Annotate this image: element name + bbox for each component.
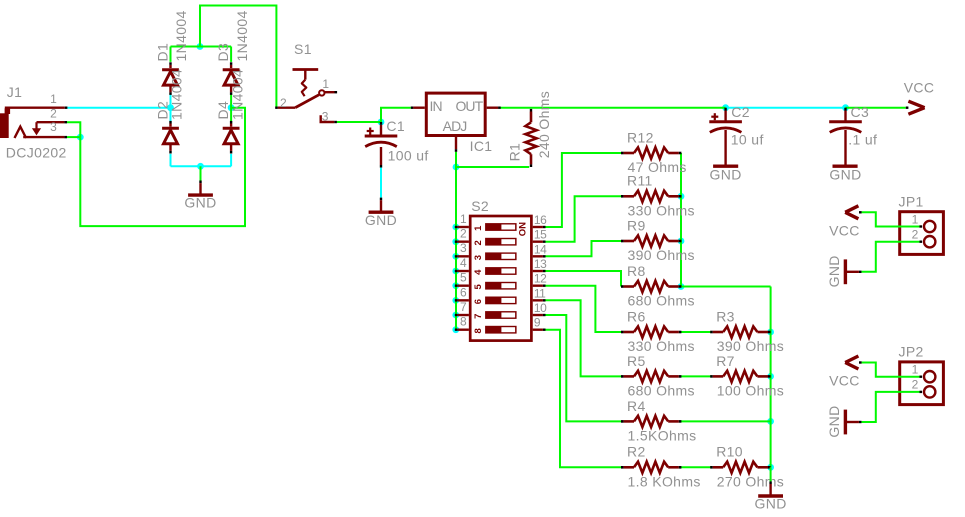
resistor R10 (270 Ohms) (710, 444, 784, 490)
resistor R1 (vertical) (525, 109, 536, 167)
resistor R9 (390 Ohms) (621, 217, 695, 263)
wire: C3 junction to VCC arrow (846, 107, 906, 109)
wire: bridge left branch D1-D2 (cyan) (170, 95, 172, 123)
svg-text:14: 14 (534, 242, 547, 256)
wire: vertical net joining R12,R11,R9,R8 right ends (680, 153, 682, 287)
svg-text:8: 8 (460, 315, 467, 329)
capacitor C3 lower pin (844, 130, 846, 165)
wire: bridge right branch below D4 (cyan) (230, 154, 232, 166)
resistor R11 (330 Ohms) (621, 173, 695, 219)
svg-text:ON: ON (518, 222, 529, 236)
svg-text:R10: R10 (716, 444, 743, 460)
S2 pin 13 stub (right) (533, 270, 546, 272)
junction dot: C3 at VCC rail (842, 104, 849, 111)
svg-text:S2: S2 (471, 198, 489, 214)
junction dot: J1 pin2/pin3 node (77, 134, 84, 141)
wire: C1 junction up and to IC1 IN (381, 108, 411, 122)
resistor R12 (47 Ohms) (621, 129, 687, 175)
svg-text:GND: GND (365, 212, 397, 228)
junction dot: R4 wire at GND bus (767, 418, 774, 425)
svg-text:.1 uf: .1 uf (848, 132, 877, 148)
svg-text:1.5KOhms: 1.5KOhms (628, 427, 697, 443)
diode D4 (1N4004) (223, 121, 240, 154)
svg-text:1N4004: 1N4004 (169, 69, 185, 120)
svg-text:6: 6 (460, 285, 467, 299)
svg-text:13: 13 (534, 257, 547, 271)
svg-text:IN: IN (430, 98, 442, 114)
S2 pin 10 stub (right) (533, 314, 546, 316)
JP1 pin 1 circle (924, 221, 935, 232)
wire: S2 pin15 to R11 (545, 196, 621, 241)
svg-text:3: 3 (322, 110, 329, 124)
S2 pin 6 stub (left) (455, 299, 469, 301)
junction dot: C1 / S1.3 / IC1.IN node (378, 119, 385, 126)
wire: J1 node big loop to bridge right mid (80, 108, 245, 226)
resistor R7 (100 Ohms) (710, 353, 784, 399)
junction dot: R10 right at GND bus (767, 464, 774, 471)
svg-text:ADJ: ADJ (443, 118, 467, 134)
svg-text:4: 4 (460, 256, 467, 270)
svg-text:100 Ohms: 100 Ohms (717, 382, 784, 398)
capacitor C3 (826, 80, 943, 438)
junction dot: bridge top node (197, 43, 204, 50)
junction dot: R9 right at vertical net (678, 238, 685, 245)
svg-text:3: 3 (50, 120, 57, 134)
svg-text:3: 3 (473, 255, 484, 260)
IC1 pin IN stub (411, 106, 425, 108)
svg-text:1N4004: 1N4004 (229, 69, 245, 120)
wire: JP2 pin1 to VCC (862, 363, 920, 377)
wire: JP2 pin2 to GND (862, 392, 920, 422)
resistor R6 (330 Ohms) (621, 308, 695, 354)
wire: IC1 ADJ down to junction (455, 152, 457, 167)
svg-text:GND: GND (184, 195, 216, 211)
DIP switch S2 box (470, 216, 531, 341)
svg-text:10: 10 (534, 301, 547, 315)
switch S1 (275, 70, 337, 123)
S2 pin 8 stub (left) (455, 328, 469, 330)
junction dot: bridge left mid node (J1 pin1 net) (167, 104, 174, 111)
wire: bridge left branch below D2 (cyan) (170, 154, 172, 166)
wire: JP1 pin2 to GND (862, 242, 920, 272)
VCC supply symbol (arrow right) (906, 101, 925, 114)
wire: S2 pin11 to R5 (545, 300, 621, 376)
resistor R4 (1.5KOhms) (621, 398, 696, 444)
svg-text:1: 1 (50, 92, 57, 106)
svg-text:C1: C1 (386, 118, 405, 134)
wire: R6 to R3 (681, 331, 711, 333)
wire: R2 to R10 (681, 466, 711, 468)
junction dot: bridge bottom node (GND net) (197, 163, 204, 170)
VCC supply symbol (arrow left) for JP2 (845, 356, 861, 369)
wire: S2 pin16 to R12 (545, 153, 621, 227)
svg-text:9: 9 (534, 316, 541, 330)
S2 pin 2 stub (left) (455, 240, 469, 242)
svg-text:330 Ohms: 330 Ohms (628, 202, 695, 218)
svg-text:390 Ohms: 390 Ohms (717, 338, 784, 354)
wire: bridge right branch top (green above D3) (230, 47, 232, 62)
svg-text:VCC: VCC (829, 222, 860, 238)
svg-text:R6: R6 (627, 308, 646, 324)
svg-text:1: 1 (473, 225, 484, 231)
junction dot: IC1 ADJ / R1 / S2 node (453, 164, 460, 171)
junction dot: R7 right at GND bus (767, 373, 774, 380)
svg-text:680 Ohms: 680 Ohms (628, 293, 695, 309)
S2 pin 15 stub (right) (533, 240, 546, 242)
JP1 pin 2 circle (924, 236, 935, 247)
wire: ADJ junction right to R1 bottom (456, 166, 529, 168)
svg-text:1.8 KOhms: 1.8 KOhms (628, 473, 701, 489)
S2 pin 4 stub (left) (455, 270, 469, 272)
S2 pin 1 stub (left) (455, 226, 469, 228)
svg-text:2: 2 (473, 240, 484, 245)
svg-text:C3: C3 (851, 104, 870, 120)
ground symbol (rotated) for JP1 (845, 259, 861, 284)
svg-text:D3: D3 (215, 43, 231, 62)
ground bar below C2 (713, 164, 738, 167)
wire: S2 pin9 to R2 (545, 330, 621, 468)
svg-text:R3: R3 (716, 308, 735, 324)
capacitor C1 (polarized) (365, 80, 944, 512)
S2 pin 9 stub (right) (533, 328, 546, 330)
svg-text:J1: J1 (7, 84, 22, 100)
svg-text:240 Ohms: 240 Ohms (536, 91, 552, 158)
svg-text:4: 4 (473, 269, 484, 275)
S2 switch element 1 (485, 223, 516, 231)
svg-text:270 Ohms: 270 Ohms (717, 473, 784, 489)
svg-text:5: 5 (460, 271, 467, 285)
diode D1 (1N4004) (162, 62, 179, 95)
S2 switch element 7 (485, 311, 516, 319)
svg-text:R9: R9 (627, 217, 646, 233)
wire: S2 pin12 to R6 (545, 286, 621, 332)
svg-text:1N4004: 1N4004 (234, 10, 250, 61)
svg-text:S1: S1 (294, 41, 312, 57)
svg-text:GND: GND (826, 255, 842, 287)
capacitor C1 lower pin and wire (380, 147, 382, 168)
svg-text:7: 7 (460, 300, 467, 314)
wire: bridge top node up/over to S1 pin2 (200, 6, 276, 108)
capacitor C2 (polarized) (709, 80, 943, 438)
connector JP2 box (900, 362, 944, 405)
S2 pin 11 stub (right) (533, 299, 546, 301)
resistor R3 (390 Ohms) (710, 308, 784, 354)
S2 switch element 8 (485, 326, 516, 334)
svg-text:1: 1 (912, 212, 919, 226)
IC1 pin OUT stub (487, 106, 501, 108)
diode D3 (1N4004) (223, 62, 240, 95)
svg-text:GND: GND (829, 166, 861, 182)
svg-text:R1: R1 (507, 143, 523, 162)
svg-text:2: 2 (460, 227, 467, 241)
svg-text:6: 6 (473, 299, 484, 304)
S2 switch element 2 (485, 238, 516, 246)
svg-text:JP2: JP2 (899, 344, 924, 360)
ground symbol below bridge (184, 166, 216, 210)
svg-text:680 Ohms: 680 Ohms (628, 382, 695, 398)
IC1 pin ADJ stub (455, 137, 457, 152)
svg-text:IC1: IC1 (470, 138, 493, 154)
capacitor C2 lower pin (724, 130, 726, 165)
svg-text:1N4004: 1N4004 (173, 10, 189, 61)
svg-text:8: 8 (473, 328, 484, 333)
JP2 pin 1 circle (924, 371, 935, 382)
svg-text:C2: C2 (731, 104, 750, 120)
resistor R5 (680 Ohms) (621, 353, 695, 399)
wire: C2 junction to C3 junction (cyan) (726, 107, 846, 109)
junction dot: C2 at VCC rail (722, 104, 729, 111)
connector JP1 box (900, 212, 944, 255)
junction dot: R8 right at vertical net (678, 283, 685, 290)
svg-text:3: 3 (460, 241, 467, 255)
svg-text:R8: R8 (627, 263, 646, 279)
svg-text:R5: R5 (627, 353, 646, 369)
svg-text:2: 2 (912, 228, 919, 242)
svg-text:1: 1 (460, 212, 467, 226)
ground symbol (rotated) for JP2 (845, 410, 861, 435)
S2 pin 16 stub (right) (533, 226, 546, 228)
wire: JP1 pin1 to VCC (862, 212, 920, 226)
wire: S2 pin10 to R4 (545, 315, 621, 421)
svg-text:DCJ0202: DCJ0202 (6, 144, 67, 160)
resistor R8 (680 Ohms) (621, 263, 695, 309)
svg-text:VCC: VCC (829, 373, 860, 389)
junction dot: bridge right mid node (228, 104, 235, 111)
voltage regulator IC1 box (426, 93, 485, 135)
S2 switch element 3 (485, 252, 516, 260)
wire: J1 pin3 to junction (67, 136, 80, 138)
svg-text:R12: R12 (627, 129, 654, 145)
svg-text:10 uf: 10 uf (731, 132, 764, 148)
wire: IC1 OUT to C2 junction (green) (500, 107, 725, 109)
svg-text:JP1: JP1 (899, 193, 924, 209)
svg-text:7: 7 (473, 314, 484, 319)
svg-text:11: 11 (534, 286, 546, 300)
wire: R5 to R7 (681, 375, 711, 377)
ground symbol below C1 (365, 198, 397, 228)
wire: bridge right branch D3-D4 (green) (230, 95, 232, 123)
svg-text:GND: GND (710, 166, 742, 182)
svg-text:R11: R11 (627, 173, 653, 189)
svg-text:12: 12 (534, 272, 547, 286)
ground bar below C3 (833, 164, 858, 167)
JP2 pin tips (920, 377, 923, 392)
junction dots: S2 left pins 1-8 on vertical net (452, 224, 459, 231)
wire: S2 pin14 to R9 (545, 241, 621, 256)
wire: bridge bottom horizontal (cyan) (171, 165, 232, 167)
S2 pin 14 stub (right) (533, 255, 546, 257)
svg-text:390 Ohms: 390 Ohms (628, 247, 695, 263)
S2 pin 3 stub (left) (455, 255, 469, 257)
diode D2 (1N4004) (162, 121, 179, 154)
svg-text:GND: GND (755, 496, 787, 512)
svg-text:VCC: VCC (904, 80, 935, 96)
svg-text:5: 5 (473, 284, 484, 290)
wire: bridge top horizontal (171, 46, 232, 48)
svg-text:1: 1 (322, 77, 329, 91)
ground symbol at GND bus bottom (755, 467, 787, 511)
connector J1 (DC jack) body (0, 108, 67, 138)
VCC supply symbol (arrow left) for JP1 (845, 206, 861, 219)
svg-text:100 uf: 100 uf (388, 148, 429, 164)
svg-text:2: 2 (50, 106, 57, 120)
svg-text:15: 15 (534, 228, 547, 242)
svg-text:330 Ohms: 330 Ohms (628, 338, 695, 354)
svg-text:R2: R2 (627, 444, 646, 460)
svg-text:2: 2 (280, 96, 287, 110)
S2 switch element 4 (485, 267, 516, 275)
JP2 pin 2 circle (924, 386, 935, 397)
svg-text:2: 2 (912, 378, 919, 392)
junction dot: R11 right at vertical net (678, 193, 685, 200)
S2 pin 5 stub (left) (455, 284, 469, 286)
wire: R8 row across to GND bus (681, 286, 771, 288)
resistor R2 (1.8 KOhms) (621, 444, 701, 490)
svg-text:R4: R4 (627, 398, 646, 414)
S2 switch element 5 (485, 282, 516, 290)
wire: J1 pin1 to bridge left mid (cyan) (68, 107, 171, 109)
wire: ADJ junction down to S2 pins 1-8 (455, 167, 457, 330)
svg-text:OUT: OUT (455, 98, 483, 114)
svg-text:R7: R7 (716, 353, 735, 369)
S2 pin 7 stub (left) (455, 314, 469, 316)
JP1 pin tips (920, 227, 923, 242)
S2 switch element 6 (485, 297, 516, 305)
junction dot: R3 right at GND bus (767, 329, 774, 336)
svg-text:16: 16 (534, 213, 547, 227)
svg-text:1: 1 (912, 363, 919, 377)
svg-text:GND: GND (826, 405, 842, 437)
wire: bridge left branch top (green above D1) (170, 47, 172, 62)
wire: J1 pin2 jog down to pin3 node (67, 122, 80, 137)
wire: GND bus vertical (770, 287, 772, 468)
wire: C1 to GND (cyan) (380, 168, 382, 198)
wire: S2 pin13 to R8 (545, 271, 621, 287)
wire: S1 pin3 to C1 junction (337, 121, 381, 123)
S2 pin 12 stub (right) (533, 284, 546, 286)
svg-text:D1: D1 (155, 43, 171, 62)
wire: R4 right to GND bus (681, 420, 771, 422)
